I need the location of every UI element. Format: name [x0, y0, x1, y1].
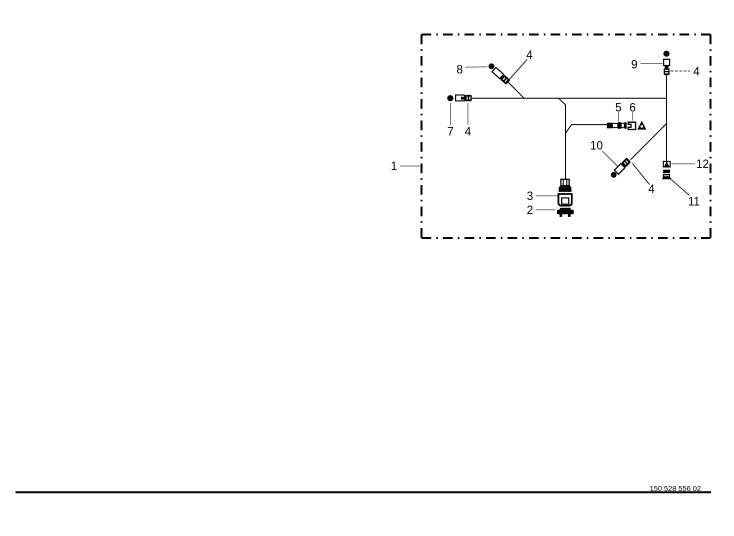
part 3 collar: [559, 186, 572, 192]
position triangle symbol: [637, 121, 646, 130]
part 9 connector body: [664, 59, 670, 65]
svg-text:6: 6: [629, 103, 635, 115]
part 10 cable end dot: [611, 172, 617, 178]
leader line 7: [450, 103, 452, 125]
wire branch to part 10: [631, 124, 667, 160]
wire branch to part 5: [566, 125, 608, 134]
part 3 cap: [561, 179, 569, 185]
svg-text:1: 1: [391, 161, 397, 173]
svg-text:12: 12: [696, 159, 709, 171]
svg-text:4: 4: [526, 50, 533, 62]
svg-text:4: 4: [465, 126, 472, 138]
svg-text:4: 4: [648, 184, 655, 196]
leader line 3: [536, 195, 558, 197]
part 8 cable end dot: [489, 63, 495, 69]
leader line 12: [672, 163, 696, 165]
part 2 seal: [557, 208, 574, 217]
part 4 connector left: [456, 95, 472, 101]
leader line 4 right: [671, 70, 691, 72]
part 3 body: [558, 194, 571, 206]
svg-text:3: 3: [527, 191, 533, 203]
leader line 4 top: [509, 60, 528, 81]
leader line 8: [465, 66, 488, 69]
part 12 plug: [663, 161, 670, 167]
part 7 cable end dot: [447, 95, 453, 101]
svg-text:8: 8: [456, 65, 462, 77]
frame border (dash-dot): [422, 35, 711, 239]
part 11 connector: [662, 170, 672, 180]
part 6 angle plug: [628, 122, 635, 129]
leader line 11: [669, 178, 690, 196]
leader line 4 bottom: [633, 164, 650, 185]
leader line 5: [618, 112, 620, 122]
svg-text:5: 5: [615, 103, 621, 115]
wire main horizontal bus: [472, 97, 667, 99]
svg-text:4: 4: [693, 66, 700, 78]
leader line 6: [632, 112, 634, 121]
part 4 connector bottom (rotated): [614, 157, 631, 174]
leader line 2: [536, 209, 556, 211]
svg-text:10: 10: [590, 140, 603, 152]
wire bend down to part 3: [559, 98, 566, 179]
svg-text:2: 2: [527, 205, 533, 217]
part 4 connector top (rotated): [492, 67, 511, 85]
svg-text:7: 7: [447, 126, 453, 138]
leader line 10: [603, 151, 620, 168]
wire right vertical: [666, 75, 668, 161]
svg-text:9: 9: [631, 60, 637, 72]
part 5 valve connector: [607, 122, 627, 129]
leader line 4 left: [467, 103, 469, 125]
part 9 cable end dot: [663, 51, 669, 57]
footer rule: [16, 491, 712, 493]
part 4 connector right: [664, 68, 670, 75]
svg-text:11: 11: [688, 197, 700, 209]
leader line 1: [400, 165, 421, 167]
wire branch to part 8: [508, 82, 525, 99]
leader line 9: [641, 63, 663, 65]
